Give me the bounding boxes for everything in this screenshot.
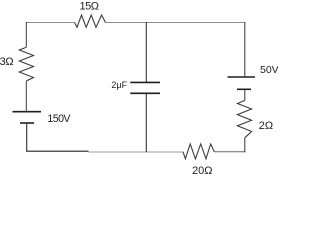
wire middle vertical lower — [145, 94, 147, 152]
resistor 15Ω zigzag — [75, 15, 106, 27]
wire top-right horizontal — [106, 22, 246, 24]
resistor 2Ω zigzag — [237, 101, 251, 138]
battery 150V long plate — [13, 111, 42, 113]
wire battery 50V to resistor — [244, 89, 246, 100]
wire middle vertical upper — [145, 22, 147, 82]
wire left vertical upper — [25, 22, 27, 47]
wire bottom-right segment — [214, 151, 245, 153]
svg-text:20Ω: 20Ω — [192, 165, 212, 175]
wire bottom-left dark segment — [26, 150, 88, 152]
wire resistor 2Ω to bottom — [244, 138, 246, 153]
resistor 3Ω zigzag — [19, 47, 33, 81]
wire left vertical lower — [25, 81, 27, 111]
wire battery to bottom — [26, 123, 28, 152]
wire top-left horizontal — [26, 22, 75, 24]
svg-text:150V: 150V — [47, 113, 71, 125]
battery 50V short plate — [237, 88, 251, 90]
capacitor 2μF top plate — [130, 81, 160, 83]
capacitor 2μF bottom plate — [130, 92, 160, 94]
svg-text:3Ω: 3Ω — [0, 56, 13, 68]
resistor 20Ω zigzag — [183, 144, 214, 159]
svg-text:50V: 50V — [260, 64, 278, 76]
svg-text:2Ω: 2Ω — [259, 120, 273, 132]
svg-text:2μF: 2μF — [111, 80, 127, 90]
wire right vertical upper — [244, 22, 246, 77]
wire bottom middle gray segment — [89, 151, 184, 153]
battery 150V short plate — [20, 122, 34, 124]
battery 50V long plate — [228, 76, 256, 78]
svg-text:15Ω: 15Ω — [80, 1, 99, 13]
